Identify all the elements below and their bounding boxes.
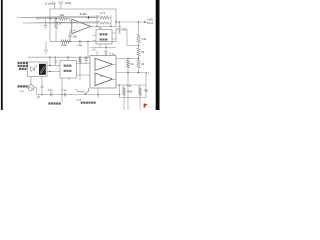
- text label C: [81, 102, 83, 104]
- svg-text:0.1μ: 0.1μ: [48, 89, 53, 92]
- control section box: [50, 9, 116, 42]
- IC U4 box: [60, 61, 77, 79]
- svg-text:50Hz: 50Hz: [20, 91, 25, 93]
- watermark logo red: [144, 104, 148, 108]
- wire opto to IC bottom: [47, 71, 60, 73]
- node fb left: [96, 26, 97, 27]
- svg-text:0.1μ: 0.1μ: [110, 53, 115, 56]
- svg-text:IR21: IR21: [100, 76, 105, 78]
- capacitor C2 100u top: [58, 1, 63, 9]
- wire U2 lower rail: [90, 47, 116, 49]
- svg-text:4148: 4148: [76, 100, 82, 102]
- resistor chain vertical: [137, 22, 140, 73]
- wire T2 tip stub: [113, 78, 117, 80]
- svg-text:0.1μ: 0.1μ: [122, 28, 127, 31]
- wire vertical junction col: [49, 57, 51, 65]
- wire input: [38, 18, 58, 20]
- opto label text: [18, 62, 20, 64]
- node bus3: [97, 94, 98, 95]
- resistor R5 on box bottom: [61, 40, 69, 43]
- ground G2 below box: [44, 42, 49, 54]
- input terminal: [37, 18, 39, 20]
- wire T1 tip stub: [113, 63, 117, 65]
- opto detector (dark): [39, 64, 46, 75]
- snubber bottom wire: [120, 85, 147, 98]
- lower bus wire: [28, 56, 90, 58]
- svg-text:600V: 600V: [127, 92, 133, 94]
- wire U3 right bottom: [116, 72, 146, 74]
- left page edge bar: [1, 0, 3, 110]
- wire down right: [145, 73, 147, 86]
- wire op-amp output: [91, 25, 116, 27]
- transistor Q1: [77, 88, 89, 94]
- svg-text:1.5k: 1.5k: [141, 37, 147, 41]
- text label A: [48, 102, 50, 104]
- node bottom wire 2: [87, 41, 88, 42]
- resistor R1 10k: [59, 17, 68, 20]
- capacitor C6: [64, 93, 66, 97]
- wire feedback upper: [85, 17, 97, 19]
- arrow terminal: [144, 21, 147, 23]
- snubber top wire: [116, 84, 146, 86]
- svg-text:0.1μ: 0.1μ: [127, 86, 132, 88]
- svg-text:30mA: 30mA: [147, 22, 154, 25]
- svg-text:jxt.cc: jxt.cc: [147, 105, 154, 108]
- wire to op-amp minus: [68, 19, 72, 23]
- U3 top stubs: [96, 51, 98, 56]
- capacitor C1 0.1u top: [50, 1, 56, 9]
- resistor R2 vertical: [54, 19, 57, 42]
- U4 top pin: [67, 57, 69, 60]
- optocoupler box: [28, 62, 48, 77]
- ground G3: [37, 95, 41, 100]
- right page edge bar: [156, 0, 160, 110]
- snubber left wire: [119, 85, 121, 98]
- wire tap: [116, 30, 139, 46]
- svg-text:4.7k: 4.7k: [100, 11, 106, 15]
- node bus2: [61, 94, 62, 95]
- capacitor C3: [68, 33, 71, 42]
- node bus 1: [49, 57, 50, 58]
- IC U2 box: [96, 30, 112, 45]
- node R2/wire: [55, 18, 57, 20]
- node box edge: [115, 21, 116, 22]
- svg-text:1N: 1N: [75, 90, 78, 92]
- resistor R4 feedback lower: [23, 22, 111, 24]
- svg-text:0.1μ: 0.1μ: [45, 1, 51, 5]
- node bottom wire: [69, 41, 70, 42]
- triangle T1: [95, 59, 113, 71]
- wire box bottom to bus: [97, 88, 99, 98]
- svg-text:+15V: +15V: [147, 18, 154, 22]
- svg-text:10n: 10n: [73, 34, 78, 38]
- op-amp U1: [72, 19, 91, 33]
- svg-text:(1μ): (1μ): [78, 43, 83, 47]
- svg-text:0.1μ: 0.1μ: [62, 89, 67, 92]
- node input/box: [49, 18, 50, 19]
- ground G1: [43, 19, 47, 29]
- svg-text:(10k): (10k): [61, 43, 67, 47]
- driver box U3: [90, 56, 116, 89]
- U2 pin bottom 1: [99, 44, 101, 48]
- wire down to lower bus: [87, 42, 89, 58]
- bottom bus wire: [37, 94, 120, 96]
- U2 pins left: [93, 36, 97, 41]
- wire op-amp plus input: [70, 30, 72, 41]
- wire +15V output: [116, 21, 145, 23]
- wire opto to IC top: [47, 65, 60, 67]
- U2 pins right: [112, 33, 116, 39]
- resistor R7: [79, 57, 82, 80]
- wire fb rails: [97, 15, 111, 26]
- U4 right pins: [77, 64, 91, 76]
- triangle T2: [95, 73, 113, 86]
- capacitor C9: [54, 57, 57, 65]
- opto bottom stub to AC: [30, 77, 32, 85]
- node divider top: [138, 21, 139, 22]
- resistor R3 47k feedback: [18, 16, 112, 19]
- opto LED: [31, 65, 38, 72]
- resistor R9: [123, 85, 126, 124]
- U2 pin bottom 2 + cap to ground: [105, 44, 107, 48]
- resistor R10: [139, 85, 142, 140]
- wire U4 bottom to bus: [61, 78, 63, 103]
- svg-text:100μ: 100μ: [65, 1, 72, 5]
- capacitor C5: [50, 93, 52, 97]
- AC source: [28, 85, 34, 91]
- capacitor C4 decoupling: [118, 22, 121, 33]
- resistor R8: [127, 59, 130, 129]
- node fb right: [110, 26, 111, 27]
- capacitor C10 on box bottom: [79, 40, 81, 44]
- wire U3 right top: [116, 58, 139, 60]
- opto bottom stub 2 + cap: [40, 77, 43, 95]
- capacitor C7 electrolytic: [84, 57, 88, 63]
- svg-text:47kΩ: 47kΩ: [80, 12, 88, 16]
- wire AC to bus: [34, 88, 37, 95]
- U4 bottom pin stub: [68, 78, 70, 81]
